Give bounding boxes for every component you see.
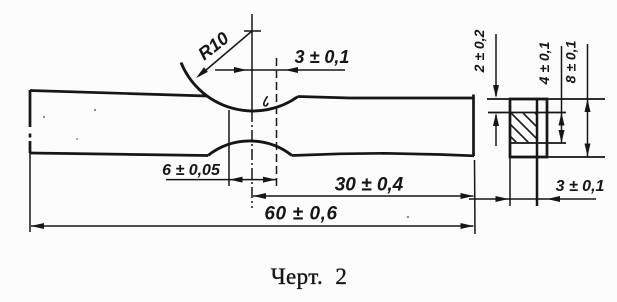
- svg-text:2 ± 0,2: 2 ± 0,2: [471, 29, 487, 73]
- svg-text:Черт. 2: Черт. 2: [271, 264, 348, 289]
- left extension line below bar: [29, 153, 31, 232]
- svg-text:3 ± 0,1: 3 ± 0,1: [556, 178, 605, 195]
- svg-text:6 ± 0,05: 6 ± 0,05: [162, 162, 221, 179]
- centerline vertical: [251, 14, 253, 111]
- arrowhead right at 473.5: [461, 223, 474, 229]
- arrowhead right-pointing at 276: [263, 177, 276, 183]
- specimen top edge right: [298, 97, 474, 99]
- arrowhead left-pointing at 285: [285, 67, 298, 73]
- arrowhead right-pointing at 247: [234, 67, 247, 73]
- hatch right edge full height: [536, 99, 539, 206]
- section top line extensions: [487, 98, 605, 100]
- svg-text:R10: R10: [194, 28, 232, 64]
- lower neck arc: [208, 141, 292, 156]
- arrowhead right at 473.5: [461, 193, 474, 199]
- arrowhead left at 31: [31, 223, 44, 229]
- dimension line 8±0,1: [587, 44, 589, 157]
- svg-text:3 ± 0,1: 3 ± 0,1: [295, 47, 350, 67]
- svg-text:8 ± 0,1: 8 ± 0,1: [563, 40, 579, 83]
- upper neck arc R10 with overshoot: [181, 63, 298, 111]
- hatched area: [487, 89, 577, 179]
- dimension line 4±0,1: [561, 46, 563, 143]
- svg-text:30 ± 0,4: 30 ± 0,4: [335, 175, 404, 196]
- right extension line for 30 and 60: [474, 160, 477, 234]
- dimension line 30±0,4: [253, 195, 474, 197]
- dimension line 60±0,6: [31, 225, 474, 227]
- dimension line 3±0,1 top: [215, 69, 345, 71]
- dimension line 3±0,1 section: [469, 198, 596, 200]
- R10 leader line: [199, 31, 252, 76]
- extension line left of neck: [228, 110, 230, 186]
- dashed extension line right of neck: [276, 58, 278, 188]
- section hatch bottom line: [510, 142, 566, 144]
- specimen right end edge: [472, 95, 475, 157]
- scan speck dots: [43, 109, 409, 218]
- specimen bottom edge left: [30, 153, 208, 156]
- section left edge extension down: [509, 157, 511, 206]
- svg-text:4 ± 0,1: 4 ± 0,1: [536, 41, 552, 85]
- R10 leader arrowhead: [196, 67, 208, 78]
- section hatch top line: [488, 112, 566, 114]
- section bottom line extension: [510, 156, 605, 158]
- dimension line 6±0,05: [166, 179, 277, 181]
- specimen bottom edge right: [292, 153, 474, 156]
- svg-text:60 ± 0,6: 60 ± 0,6: [264, 204, 337, 225]
- label l gauge mark: [264, 96, 268, 106]
- specimen top edge left: [30, 91, 207, 97]
- section outer rectangle: [510, 99, 547, 157]
- dimension 2±0,2 arrows: [495, 34, 497, 96]
- arrowhead left-pointing at 229.5: [230, 177, 243, 183]
- arrowhead left at 253: [253, 193, 266, 199]
- specimen left end edge: [29, 90, 32, 153]
- R10 leader elbow tick: [244, 30, 261, 32]
